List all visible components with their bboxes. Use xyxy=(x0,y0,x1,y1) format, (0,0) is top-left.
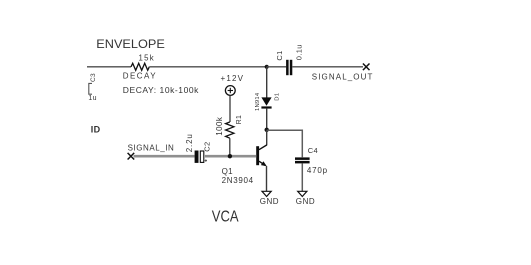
wire R1 to base net xyxy=(229,138,231,156)
wire D1 cathode to collector node xyxy=(266,109,268,130)
wire C1 to SIGNAL_OUT xyxy=(292,66,363,68)
resistor R1 xyxy=(226,122,234,138)
diode D1 xyxy=(261,97,271,105)
svg-text:2N3904: 2N3904 xyxy=(222,176,254,185)
svg-text:DECAY: DECAY xyxy=(123,71,157,80)
svg-text:DECAY: 10k-100k: DECAY: 10k-100k xyxy=(123,85,199,95)
wire collector node to C4 xyxy=(267,130,303,157)
svg-text:+12V: +12V xyxy=(221,74,245,83)
svg-text:ID: ID xyxy=(91,125,101,135)
svg-text:100k: 100k xyxy=(215,116,224,136)
svg-text:1N914: 1N914 xyxy=(255,92,261,111)
wire C4 to ground xyxy=(301,163,303,191)
svg-text:470p: 470p xyxy=(307,166,328,175)
transistor Q1 xyxy=(256,130,267,191)
emitter lead with arrow xyxy=(259,161,265,165)
svg-text:C2: C2 xyxy=(203,142,212,152)
wire node to C1 xyxy=(267,66,287,68)
wire ENVELOPE net, right segment to node xyxy=(149,66,266,68)
capacitor C4 plates xyxy=(295,157,310,160)
svg-text:15k: 15k xyxy=(139,53,155,62)
wire +12V to R1 xyxy=(229,95,231,122)
svg-text:R1: R1 xyxy=(236,115,243,125)
collector lead xyxy=(266,130,268,145)
terminal X SIGNAL_IN xyxy=(128,153,135,160)
capacitor C1 plates xyxy=(286,60,289,75)
junction node base/R1 xyxy=(228,154,232,158)
svg-text:GND: GND xyxy=(260,197,279,206)
polarity mark xyxy=(205,159,207,161)
svg-text:C3: C3 xyxy=(90,73,97,82)
svg-text:VCA: VCA xyxy=(212,208,239,225)
resistor R (DECAY 15k) xyxy=(131,63,149,70)
junction node at C1/D1 xyxy=(265,65,269,69)
wire C2 to base junction xyxy=(205,155,256,158)
svg-text:0.1u: 0.1u xyxy=(295,44,304,60)
ground symbol left xyxy=(262,191,271,196)
terminal X SIGNAL_OUT xyxy=(363,64,370,71)
svg-text:C1: C1 xyxy=(275,50,284,60)
svg-text:GND: GND xyxy=(296,197,315,206)
svg-text:1u: 1u xyxy=(88,95,96,102)
wire SIGNAL_IN to C2 xyxy=(134,155,195,158)
junction node collector xyxy=(265,128,269,132)
svg-text:Q1: Q1 xyxy=(222,167,234,176)
wire node to D1 anode xyxy=(266,67,268,98)
svg-text:C4: C4 xyxy=(308,146,318,155)
svg-text:2.2u: 2.2u xyxy=(185,133,194,152)
svg-text:SIGNAL_OUT: SIGNAL_OUT xyxy=(312,72,374,81)
svg-text:SIGNAL_IN: SIGNAL_IN xyxy=(128,144,175,153)
base bar xyxy=(256,146,259,165)
svg-text:ENVELOPE: ENVELOPE xyxy=(96,39,165,51)
svg-text:D1: D1 xyxy=(274,93,280,101)
wire ENVELOPE net, left segment xyxy=(87,66,131,68)
ground symbol right xyxy=(298,191,307,196)
capacitor C2 (polarized) xyxy=(195,151,199,163)
